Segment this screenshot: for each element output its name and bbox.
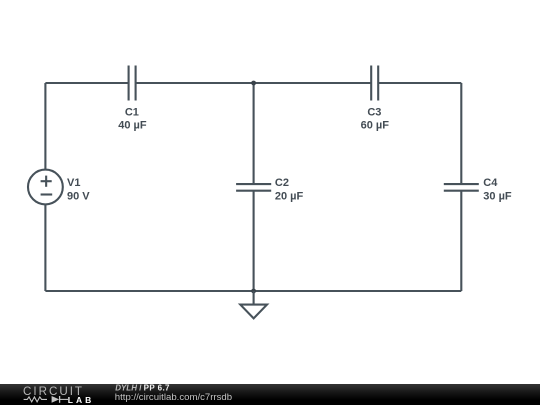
capacitor C3: [371, 66, 378, 101]
wire: bottom horizontal rail: [45, 290, 461, 292]
node: top-middle junction dot: [251, 81, 256, 86]
wire: middle vertical from top node to C2 top plate: [253, 83, 255, 183]
svg-text:http://circuitlab.com/c7rrsdb: http://circuitlab.com/c7rrsdb: [115, 392, 232, 403]
wire: top-middle node to C3 left plate: [254, 82, 371, 84]
svg-text:40 µF: 40 µF: [118, 120, 147, 132]
wire: C1 right plate to top-middle node: [136, 82, 254, 84]
capacitor C2: [236, 184, 271, 191]
svg-text:60 µF: 60 µF: [361, 120, 390, 132]
svg-text:C1: C1: [125, 107, 139, 119]
CircuitLab logo: [22, 385, 97, 405]
credit text: [0, 384, 300, 405]
diode glyph in logo: [52, 396, 60, 403]
wire: right vertical from top-right corner to C4 top plate: [460, 83, 462, 183]
svg-text:C3: C3: [367, 107, 381, 119]
wire: C4 bottom plate to bottom-right corner: [460, 191, 462, 291]
ground: [240, 291, 267, 318]
svg-text:90 V: 90 V: [67, 191, 90, 203]
wire: left vertical from V1 bottom to bottom-left corner: [44, 204, 46, 291]
svg-text:V1: V1: [67, 177, 80, 189]
capacitor C4: [444, 184, 479, 191]
node: bottom-middle junction dot: [251, 289, 256, 294]
resistor glyph in logo: [24, 397, 47, 402]
svg-text:C2: C2: [275, 177, 289, 189]
wire from diode to LAB wordmark: [60, 398, 68, 400]
footer bar: [0, 384, 540, 405]
svg-text:30 µF: 30 µF: [483, 191, 512, 203]
wire: top rail, left corner to C1 left plate: [45, 82, 128, 84]
wire: C3 right plate to top-right corner: [378, 82, 461, 84]
voltage source V1: [28, 170, 63, 205]
svg-text:C4: C4: [483, 177, 498, 189]
svg-text:20 µF: 20 µF: [275, 191, 304, 203]
wire: C2 bottom plate to bottom-middle node: [253, 191, 255, 291]
wire: left vertical from top-left corner down to V1 top: [44, 83, 46, 170]
capacitor C1: [129, 66, 136, 101]
